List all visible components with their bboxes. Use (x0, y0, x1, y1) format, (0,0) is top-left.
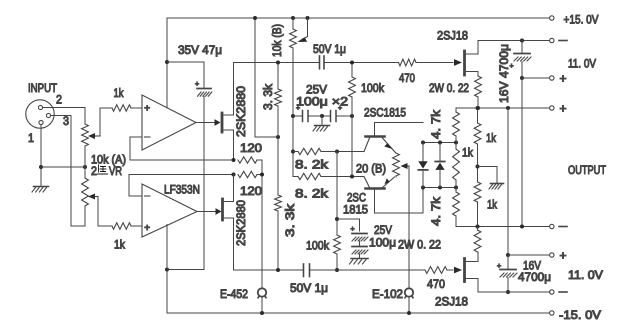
node fb2 (232, 173, 236, 177)
label R6 value (361, 81, 385, 95)
node d top 440 (438, 141, 442, 145)
wire 10kB wiper bus (292, 48, 294, 177)
svg-text:120: 120 (240, 141, 262, 155)
label R1 value (114, 86, 125, 100)
node d bot 423 (421, 186, 425, 190)
resistor R5 470 ch1 (399, 59, 417, 66)
wire +15 to 3.3k mid (255, 18, 278, 137)
node 4700u1 bot (520, 76, 524, 80)
label Q3 type (437, 29, 468, 43)
resistor R15 0.22 top (475, 76, 482, 108)
diode D2 (435, 143, 444, 188)
wire opamp1 V+ pin (0, 0, 1, 1)
label R2 value (114, 238, 126, 252)
node d bot 440 (438, 186, 442, 190)
capacitor C10 50V 1u ch2 (304, 264, 310, 277)
svg-text:+: + (144, 223, 150, 234)
node chainB mid (476, 165, 480, 169)
transistor Q1 2SC1815 (364, 123, 423, 152)
wire op-amp V+ feed (166, 18, 168, 108)
label C9 value (518, 270, 551, 284)
node r0221 top (476, 225, 480, 229)
capacitor C9 16V 4700u (497, 255, 517, 292)
resistor R10 4.7k (453, 108, 460, 143)
svg-text:1815: 1815 (343, 203, 368, 217)
label R12 value (429, 196, 443, 226)
svg-text:2SK2880: 2SK2880 (234, 86, 248, 137)
wire diode top rail (423, 142, 456, 144)
svg-text:1k: 1k (486, 131, 497, 145)
capacitor C6 100u ch2 a (351, 226, 369, 241)
resistor R19 120 ch2 (238, 171, 262, 177)
svg-text:100μ: 100μ (369, 236, 396, 250)
wiper VR1 b (88, 194, 98, 227)
svg-text:100k: 100k (361, 81, 385, 95)
resistor R14 1k (474, 182, 481, 227)
wire battery top bus (521, 78, 523, 227)
resistor R2 1k ch2 (98, 223, 142, 229)
node 100k2 bottom (335, 268, 339, 272)
svg-text:+: + (195, 81, 199, 88)
node V+ junction (165, 60, 169, 64)
wire drain2 line (478, 291, 550, 293)
svg-text:2W 0. 22: 2W 0. 22 (398, 238, 441, 252)
svg-text:100μ ×2: 100μ ×2 (296, 95, 348, 109)
ground caps mid (313, 116, 330, 131)
wire op2 feedback (129, 175, 234, 197)
label C4 C5 value (296, 95, 348, 109)
wire output minus line (456, 226, 550, 228)
resistor R1 1k ch1 (100, 105, 142, 111)
node caps mid (320, 114, 324, 118)
wire caps ch2 feed (337, 219, 360, 231)
svg-text:LF353N: LF353N (164, 183, 200, 197)
node out 508 (506, 106, 510, 110)
wire gate1 arrow (454, 59, 462, 66)
diode E-102 CRD (405, 288, 413, 298)
svg-text:3: 3 (63, 114, 69, 128)
ground caps ch2 (350, 259, 369, 265)
resistor R7 8.2k ch1 (293, 148, 364, 154)
label C9 voltage (523, 259, 542, 273)
capacitor C1 35V 47u (195, 62, 212, 270)
svg-text:8. 2k: 8. 2k (295, 158, 329, 172)
svg-text:OUTPUT: OUTPUT (568, 163, 606, 177)
node 100k top (350, 61, 354, 65)
resistor R3 3.3k ch1 (275, 63, 282, 196)
wire op1 output (196, 119, 221, 126)
node VR2 top b (306, 16, 310, 20)
node 120 join (260, 173, 264, 177)
label Q6 type (234, 200, 248, 246)
svg-text:+: + (560, 249, 567, 263)
wire V- segment (167, 269, 204, 271)
node x255 rail (253, 16, 257, 20)
svg-text:16V 4700μ: 16V 4700μ (497, 44, 511, 103)
wire +15V top rail (167, 17, 550, 19)
label R3 value (261, 83, 275, 110)
svg-text:2SJ18: 2SJ18 (435, 295, 468, 309)
wire opamp2 V- pin (166, 225, 168, 270)
label C8 value (497, 44, 511, 103)
node b2 end (520, 225, 524, 229)
capacitor C3 50V 1u ch1 (320, 56, 325, 69)
label R10 value (429, 109, 443, 139)
svg-text:INPUT: INPUT (28, 81, 57, 95)
node 3.3k mid (276, 135, 280, 139)
op-amp U1b LF353N (142, 184, 197, 237)
svg-text:11. 0V: 11. 0V (568, 268, 604, 282)
transistor Q4 2SJ18 (465, 252, 479, 292)
potentiometer VR1 10kA b (82, 167, 89, 206)
svg-text:+: + (144, 104, 150, 115)
terminal plus mid2 (508, 249, 567, 263)
svg-text:2: 2 (56, 93, 62, 107)
svg-text:+: + (560, 72, 567, 86)
wire -15V bottom rail (167, 270, 550, 314)
label 11.0V top (568, 57, 597, 71)
potentiometer VR4 20B (393, 152, 400, 177)
node caps left (291, 114, 295, 118)
label C3 value (313, 42, 346, 56)
node 3.3k top (276, 61, 280, 65)
resistor R18 120 ch1 (238, 157, 262, 175)
node VR2 top a (291, 16, 295, 20)
svg-text:4. 7k: 4. 7k (429, 109, 443, 139)
transistor Q3 2SJ18 (465, 41, 479, 77)
label 11.0V bottom (568, 268, 604, 282)
svg-text:120: 120 (240, 184, 262, 198)
svg-text:-15. 0V: -15. 0V (559, 308, 602, 322)
label R4 value (283, 203, 297, 237)
node E-452 rail (260, 311, 264, 315)
svg-text:+: + (351, 226, 355, 233)
wire output plus line (456, 107, 550, 109)
ground tap chainB (478, 167, 504, 190)
wire x337 branch (336, 152, 338, 236)
label pin3 (63, 114, 69, 128)
connector J1 XLR (26, 100, 54, 128)
svg-text:8. 2k: 8. 2k (295, 187, 329, 201)
label VR4 value (356, 162, 386, 176)
diode D1 (418, 143, 427, 188)
node 4700u2 top (506, 253, 510, 257)
resistor R8 8.2k ch2 (293, 173, 364, 179)
resistor R6 100k ch1 (349, 63, 356, 177)
label R17 value (398, 238, 441, 252)
label VR1 value (91, 153, 126, 167)
resistor R11 1k mid (453, 143, 460, 188)
label R16 value (427, 277, 445, 291)
label R14 value (487, 198, 498, 212)
transistor Q5 2SK2880 (222, 63, 234, 161)
svg-text:2: 2 (91, 164, 97, 178)
capacitor C5 100u b (331, 105, 343, 122)
label R18 value (240, 141, 262, 155)
svg-text:4700μ: 4700μ (518, 270, 551, 284)
resistor R16 470 ch2 (425, 267, 447, 274)
node 8.2k1 x337 (335, 150, 339, 154)
node d top 456 (454, 141, 458, 145)
label C6 voltage (374, 223, 393, 237)
label U1 type (164, 183, 200, 197)
resistor R12 4.7k (453, 188, 460, 227)
node x337 y219 (335, 217, 339, 221)
label VR1 dual (91, 164, 122, 178)
wire gate line ch2 (234, 269, 454, 271)
label pin1 (28, 131, 34, 145)
svg-text:20 (B): 20 (B) (356, 162, 386, 176)
label R15 value (429, 81, 469, 95)
node src1 out (476, 106, 480, 110)
label C4 C5 voltage (306, 83, 328, 97)
diode E-452 CRD (258, 288, 266, 313)
label R7 value (295, 158, 329, 172)
resistor R17 0.22 bottom (474, 227, 481, 253)
label Q2 type (343, 191, 368, 217)
terminal plus mid1 (522, 72, 567, 86)
label R13 value (486, 131, 497, 145)
wire gate2 arrow (454, 267, 462, 274)
wire gate line ch1 (234, 62, 454, 64)
resistor R4 3.3k ch2 (275, 195, 282, 270)
terminal minus top (550, 38, 567, 42)
svg-text:E-102: E-102 (372, 287, 403, 301)
potentiometer VR1 10kA a (82, 124, 89, 167)
svg-text:1k: 1k (114, 86, 125, 100)
label R5 value (399, 71, 415, 85)
label C1 value (178, 43, 222, 57)
wire 47u top segment (167, 61, 204, 63)
svg-text:E-452: E-452 (220, 287, 248, 301)
terminal out minus (550, 224, 567, 228)
svg-text:50V 1μ: 50V 1μ (290, 281, 328, 295)
node chainB top (476, 106, 480, 110)
wire op2 output (197, 208, 222, 215)
label INPUT (28, 81, 57, 95)
resistor R13 1k (474, 108, 481, 182)
op-amp U1a LF353N (142, 95, 196, 150)
node d bot 456 (454, 186, 458, 190)
wire pin1 (40, 125, 42, 186)
label Q1 type (364, 106, 406, 120)
label VR3 value (270, 24, 284, 57)
node V- junction (165, 268, 169, 272)
svg-text:1k: 1k (487, 198, 498, 212)
ground input (32, 187, 49, 193)
wire gnd link (41, 166, 85, 168)
svg-text:2SC1815: 2SC1815 (364, 106, 406, 120)
label R11 value (462, 146, 474, 160)
transistor Q2 2SC1815 (364, 176, 423, 213)
label E-452 (220, 287, 248, 301)
node pin1 gnd (39, 165, 43, 169)
terminal +15.0V (550, 13, 599, 27)
wire output bus (507, 108, 509, 255)
wire diode bottom rail (423, 187, 456, 189)
label R8 value (295, 187, 329, 201)
wiper VR1 (88, 108, 100, 139)
label R9 value (306, 239, 330, 253)
node caps right (350, 114, 354, 118)
potentiometer VR3 10k(B) (290, 18, 308, 48)
label OUTPUT (568, 163, 606, 177)
label E-102 (372, 287, 403, 301)
svg-text:4. 7k: 4. 7k (429, 196, 443, 226)
node 8.2k1 left (291, 150, 295, 154)
transistor Q6 2SK2880 (223, 175, 234, 271)
label C6 value (369, 236, 396, 250)
label pin2 (56, 93, 62, 107)
node 8.2k2 x352 (350, 175, 354, 179)
node 3.3k2 bottom (276, 268, 280, 272)
svg-text:3. 3k: 3. 3k (283, 203, 297, 237)
svg-text:35V 47μ: 35V 47μ (178, 43, 222, 57)
node d top 423 (421, 141, 425, 145)
svg-text:3. 3k: 3. 3k (261, 83, 275, 110)
node 4700u1 top (520, 39, 524, 43)
svg-text:50V 1μ: 50V 1μ (313, 42, 346, 56)
svg-text:1: 1 (28, 131, 34, 145)
node E-102 rail (407, 311, 411, 315)
svg-text:10k (B): 10k (B) (270, 24, 284, 57)
node vr junction (83, 165, 87, 169)
svg-text:1k: 1k (114, 238, 126, 252)
svg-text:+: + (560, 102, 567, 116)
capacitor C8 16V 4700u (510, 41, 532, 79)
label R19 value (240, 184, 262, 198)
label C10 value (290, 281, 328, 295)
wire VR4 wiper to E-102 (408, 166, 410, 313)
svg-text:2SJ18: 2SJ18 (437, 29, 468, 43)
capacitor C4 100u a (296, 105, 308, 122)
capacitor C7 100u ch2 b (352, 241, 368, 258)
node 4700u2 bot (506, 290, 510, 294)
terminal -15.0V (550, 308, 602, 322)
svg-text:100k: 100k (306, 239, 330, 253)
label Q4 type (435, 295, 468, 309)
wiper VR4 (401, 163, 410, 169)
svg-text:+15. 0V: +15. 0V (564, 13, 600, 27)
wire op1 feedback (130, 137, 234, 160)
svg-text:470: 470 (399, 71, 415, 85)
terminal out plus (550, 102, 567, 116)
svg-text:VR: VR (109, 164, 122, 178)
svg-text:11. 0V: 11. 0V (568, 57, 597, 71)
wire minus line top (478, 40, 550, 42)
terminal minus bot (508, 290, 567, 294)
node fb1 (232, 158, 236, 162)
wire pin2 (43, 108, 85, 125)
wire pin3 (51, 116, 85, 227)
label Q5 type (234, 86, 248, 137)
svg-text:2W 0. 22: 2W 0. 22 (429, 81, 469, 95)
wire 120 junction to E-452 (261, 175, 263, 289)
resistor R9 100k ch2 (334, 235, 341, 270)
wire caps row (293, 115, 352, 117)
svg-text:1k: 1k (462, 146, 474, 160)
svg-text:470: 470 (427, 277, 445, 291)
svg-text:2SK2880: 2SK2880 (234, 200, 248, 246)
